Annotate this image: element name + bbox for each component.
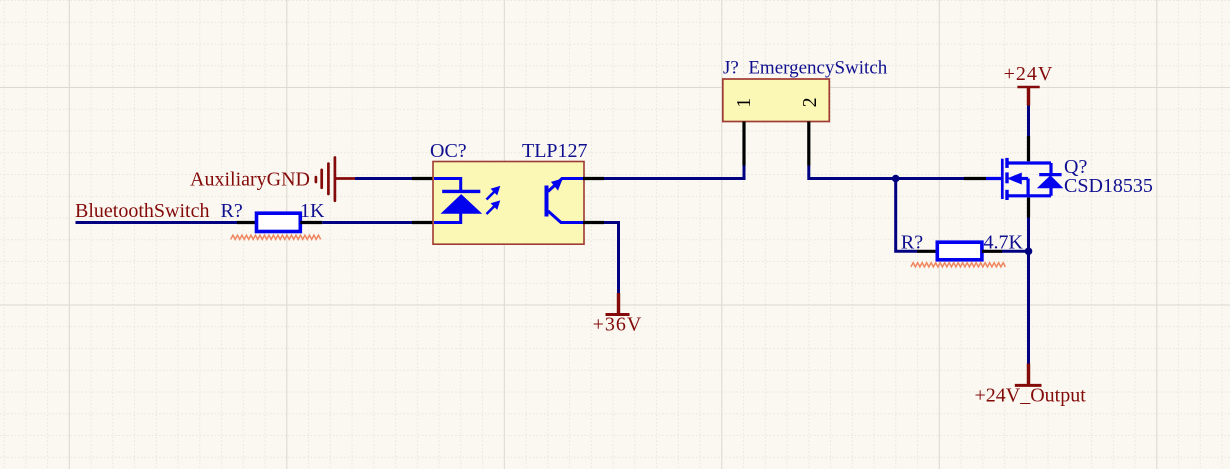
resistor R1 body [257, 213, 301, 231]
power port +24V [1017, 87, 1039, 106]
junction dot source net [1025, 248, 1033, 256]
svg-text:1K: 1K [300, 200, 325, 222]
wire AuxiliaryGND to optocoupler [355, 177, 412, 180]
svg-text:+24V: +24V [1004, 63, 1054, 85]
signal-ground power symbol AuxiliaryGND [316, 158, 355, 201]
wire BluetoothSwitch to R1 [76, 221, 238, 224]
resistor R2 right pin [982, 250, 1002, 253]
wire source to junction [1027, 218, 1030, 252]
optocoupler pin emitter bottom right [583, 221, 604, 224]
svg-text:2: 2 [799, 97, 821, 107]
connector pin 2 [807, 122, 810, 166]
error squiggle under R2 [911, 263, 1006, 267]
error squiggle under R1 [231, 235, 321, 239]
svg-text:AuxiliaryGND: AuxiliaryGND [190, 169, 310, 191]
MOSFET source pin [1027, 198, 1030, 218]
wire junction to +24V_Output [1027, 251, 1030, 363]
transistor Q? CSD18535 MOSFET symbol [986, 158, 1062, 200]
svg-text:J? EmergencySwitch: J? EmergencySwitch [723, 58, 888, 79]
svg-text:R?: R? [221, 200, 243, 222]
wire R2 to source net [1002, 250, 1029, 253]
wire R1 to optocoupler [322, 221, 412, 224]
resistor R1 left pin [237, 221, 257, 224]
connector J? EmergencySwitch body [723, 79, 830, 122]
svg-text:+36V: +36V [593, 314, 643, 336]
svg-text:+24V_Output: +24V_Output [975, 385, 1087, 407]
wire junction down to R2 [896, 179, 917, 252]
connector pin 1 [742, 122, 745, 166]
wire +24V to MOSFET drain [1027, 106, 1030, 137]
wire optocoupler emitter down to +36V [604, 223, 619, 294]
svg-text:CSD18535: CSD18535 [1064, 175, 1153, 197]
wire optocoupler collector to J1 pin1 [604, 166, 744, 179]
power port +36V [606, 293, 630, 315]
resistor R1 right pin [300, 221, 322, 224]
junction dot gate net [892, 175, 900, 183]
optocoupler LED [434, 179, 481, 223]
power port +24V_Output [1015, 364, 1042, 386]
MOSFET drain pin [1027, 136, 1030, 161]
optocoupler light arrows [487, 187, 500, 214]
optocoupler pin collector top right [583, 177, 604, 180]
svg-text:1: 1 [733, 98, 755, 108]
svg-text:BluetoothSwitch: BluetoothSwitch [75, 200, 209, 222]
MOSFET gate pin [964, 177, 986, 180]
optocoupler OC1 pin cathode-side top left [412, 177, 434, 180]
wire junction to MOSFET gate [896, 177, 964, 180]
resistor R2 left pin [917, 250, 937, 253]
resistor R2 body [937, 242, 982, 260]
svg-text:OC?: OC? [430, 140, 467, 162]
wire J1 pin2 toward gate [809, 166, 896, 179]
svg-text:TLP127: TLP127 [522, 140, 588, 162]
optocoupler OC1 pin anode-side bottom left [412, 221, 434, 224]
optocoupler OC? TLP127 body [433, 162, 584, 245]
optocoupler phototransistor [547, 179, 584, 223]
